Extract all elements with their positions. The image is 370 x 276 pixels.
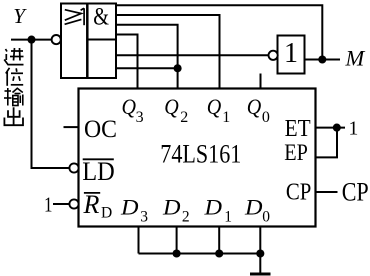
svg-text:OC: OC xyxy=(84,114,117,143)
LD input bubble xyxy=(69,163,78,172)
IC U2 74LS161 outline xyxy=(79,89,316,227)
pin D1 stub xyxy=(218,227,220,254)
OR output bubble xyxy=(52,35,61,44)
svg-text:1: 1 xyxy=(44,193,53,217)
label 出 xyxy=(4,107,23,125)
pin D3 stub xyxy=(138,227,140,254)
svg-text:2: 2 xyxy=(182,209,190,226)
node D0 junction xyxy=(256,249,264,257)
wire Y junction to LD xyxy=(32,40,70,168)
svg-text:R: R xyxy=(83,190,100,219)
label 位 xyxy=(6,68,23,86)
label &#8805;1 xyxy=(65,8,85,25)
svg-text:2: 2 xyxy=(180,109,188,126)
pin D0 stub xyxy=(259,227,261,254)
svg-text:0: 0 xyxy=(262,109,270,126)
RD input bubble xyxy=(69,199,78,208)
pin D2 stub xyxy=(176,227,178,254)
svg-text:D: D xyxy=(162,195,181,220)
pin ET stub xyxy=(316,127,346,129)
svg-text:&: & xyxy=(93,2,109,31)
node M junction xyxy=(318,55,326,63)
wire Y output xyxy=(11,39,52,41)
svg-text:D: D xyxy=(203,195,222,220)
wire inverter output to node M xyxy=(305,59,341,61)
svg-text:1: 1 xyxy=(224,209,232,226)
wire Mbar to lower AND input xyxy=(116,54,269,56)
svg-text:Q: Q xyxy=(164,94,179,119)
wire Q2 branch to lower AND input xyxy=(116,67,178,69)
wire Q3 to AND input xyxy=(116,35,138,89)
svg-text:Q: Q xyxy=(207,94,222,119)
overline RD xyxy=(84,192,100,194)
node Y junction xyxy=(27,36,35,44)
node D2 junction xyxy=(173,249,181,257)
wire EP to ET xyxy=(316,128,338,158)
svg-text:1: 1 xyxy=(349,119,359,140)
wire D bus xyxy=(139,253,261,255)
ground symbol xyxy=(250,273,271,276)
svg-text:0: 0 xyxy=(262,209,270,226)
svg-text:ET: ET xyxy=(285,115,311,142)
svg-text:CP: CP xyxy=(342,178,369,207)
label 输 xyxy=(4,88,23,106)
node D1 junction xyxy=(215,249,223,257)
svg-text:D: D xyxy=(244,195,263,220)
svg-text:1: 1 xyxy=(222,109,230,126)
wire Q1 to AND input xyxy=(116,15,220,89)
svg-text:CP: CP xyxy=(286,179,312,206)
label 进 xyxy=(4,48,23,65)
svg-text:3: 3 xyxy=(140,209,148,226)
inverter input bubble xyxy=(269,51,278,60)
node Q2 junction xyxy=(174,64,182,72)
svg-text:D: D xyxy=(120,195,139,220)
svg-text:EP: EP xyxy=(284,140,308,166)
svg-text:Q: Q xyxy=(122,94,137,119)
inverter U3 outline xyxy=(278,36,305,74)
AOI gate U1 outline xyxy=(61,4,116,79)
svg-text:3: 3 xyxy=(136,109,144,126)
wire M to top AND input xyxy=(116,5,322,59)
svg-text:M: M xyxy=(345,46,366,71)
node ET junction xyxy=(333,124,341,132)
pin CP stub xyxy=(316,191,338,193)
svg-text:LD: LD xyxy=(82,157,115,186)
svg-text:74LS161: 74LS161 xyxy=(160,139,241,169)
overline LD xyxy=(83,158,114,160)
svg-text:Q: Q xyxy=(247,94,262,119)
svg-text:D: D xyxy=(101,205,112,222)
pin OC stub xyxy=(64,126,79,128)
wire Q2 to AND input xyxy=(116,25,178,89)
pin RD stub xyxy=(53,203,70,205)
svg-text:Y: Y xyxy=(13,4,27,28)
pin Q0 stub xyxy=(260,74,262,89)
ground lead xyxy=(259,254,261,273)
svg-text:1: 1 xyxy=(284,38,298,69)
